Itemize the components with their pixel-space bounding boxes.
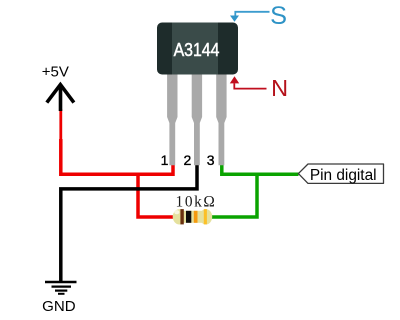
svg-text:A3144: A3144 <box>174 39 220 60</box>
svg-text:10kΩ: 10kΩ <box>176 194 217 211</box>
svg-text:1: 1 <box>161 152 169 168</box>
svg-text:3: 3 <box>207 152 215 168</box>
svg-text:GND: GND <box>42 299 76 315</box>
svg-text:N: N <box>271 75 288 101</box>
svg-text:+5V: +5V <box>42 63 69 80</box>
svg-text:2: 2 <box>184 152 192 168</box>
svg-text:Pin digital: Pin digital <box>310 167 377 184</box>
svg-text:S: S <box>270 2 287 30</box>
